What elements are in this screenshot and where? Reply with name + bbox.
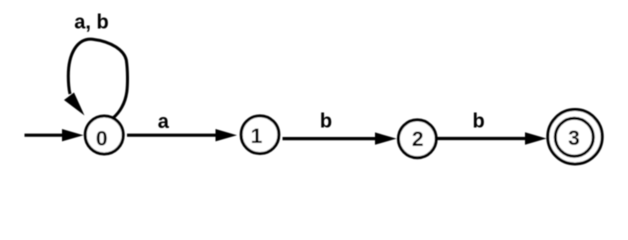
state 1	[241, 116, 279, 154]
state 0	[85, 116, 123, 154]
svg-text:b: b	[472, 111, 484, 133]
state 3 (accepting, double circle)	[548, 110, 602, 164]
svg-text:2: 2	[412, 128, 424, 151]
svg-text:a: a	[158, 111, 170, 133]
svg-text:b: b	[320, 110, 332, 132]
svg-text:1: 1	[251, 125, 263, 148]
state 2	[398, 120, 436, 158]
wire edge 1 to 2	[283, 132, 397, 144]
start arrow into state 0	[25, 129, 84, 141]
wire edge 0 to 1	[127, 129, 237, 141]
wire edge 2 to 3	[437, 132, 547, 144]
svg-text:3: 3	[568, 127, 580, 150]
svg-text:a, b: a, b	[74, 12, 108, 34]
self-loop on state 0	[64, 39, 127, 117]
svg-text:0: 0	[96, 127, 108, 150]
